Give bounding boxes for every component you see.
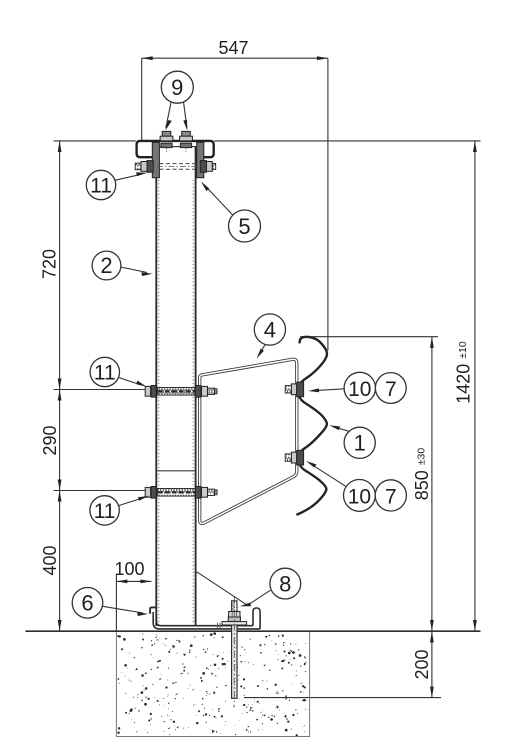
svg-text:2: 2	[100, 253, 112, 278]
w-beam bolt upper (7/10)	[285, 382, 303, 397]
callout 6	[72, 588, 103, 619]
callout 8	[270, 568, 301, 599]
leader to callouts 10/7 lower	[311, 464, 347, 487]
leader to callout 4	[259, 345, 265, 355]
svg-text:100: 100	[114, 559, 144, 579]
svg-text:11: 11	[90, 175, 112, 198]
leader to callout 11 top	[115, 174, 141, 180]
svg-text:4: 4	[264, 317, 276, 342]
cap through-bolt (11 top)	[135, 161, 216, 173]
svg-text:400: 400	[40, 545, 60, 575]
top cap plate (5)	[137, 141, 214, 157]
svg-text:290: 290	[40, 425, 60, 455]
ground line	[26, 630, 481, 632]
leader to callouts 10/7 upper	[313, 389, 344, 391]
left dimension chain 720 / 290 / 400	[54, 141, 148, 631]
leader to callout 11 bottom	[119, 498, 144, 506]
callout 11 top	[86, 170, 115, 199]
callout 10 upper	[344, 372, 375, 403]
leader to callout 5	[206, 187, 233, 216]
spacer bracket (4) double-line outline	[200, 359, 297, 523]
svg-text:11: 11	[94, 362, 116, 385]
svg-text:7: 7	[385, 378, 397, 401]
svg-text:9: 9	[171, 75, 183, 100]
leader to callout 8 with branch to post edge	[197, 572, 248, 606]
svg-text:10: 10	[348, 378, 371, 401]
dimension 547 (top)	[142, 58, 328, 350]
svg-text:8: 8	[279, 572, 291, 597]
svg-text:547: 547	[218, 38, 248, 58]
callout 7 lower	[375, 480, 406, 511]
post tube (2)	[156, 146, 195, 626]
leader to callout 11 mid	[118, 377, 141, 385]
dimension 850 +-30 (right)	[300, 337, 438, 631]
leader to callout 6	[102, 606, 143, 613]
callout 5	[229, 210, 261, 242]
W-beam rail profile (1)	[296, 337, 327, 515]
anchor bolt (8)	[222, 597, 247, 706]
base channel (6)	[150, 607, 260, 629]
svg-text:11: 11	[94, 500, 116, 523]
svg-text:7: 7	[385, 485, 397, 508]
cap clamp side plates	[152, 142, 159, 177]
callout 4	[254, 314, 285, 345]
callout 11 mid	[90, 357, 119, 386]
callout 9	[161, 71, 193, 103]
post clamp bolt upper (11 mid)	[145, 386, 217, 398]
svg-text:10: 10	[348, 485, 371, 508]
callout 11 bottom	[90, 496, 119, 525]
w-beam bolt lower (7/10)	[285, 450, 303, 465]
svg-text:200: 200	[412, 649, 432, 679]
dimension 200 (bottom right)	[244, 631, 441, 698]
dimension 100 (bottom left)	[116, 575, 151, 631]
concrete foundation	[116, 632, 309, 737]
svg-text:6: 6	[81, 591, 93, 616]
svg-text:720: 720	[39, 249, 59, 279]
top cap bolts (9)	[160, 131, 192, 147]
post clamp bolt lower (11 bottom)	[145, 487, 217, 499]
svg-text:5: 5	[238, 214, 250, 239]
leader to callout 2	[120, 267, 147, 273]
leader to callout 1	[334, 427, 350, 432]
dimension 1420 +-10 (far right)	[214, 141, 480, 631]
leader to callout 9 (two arrows)	[166, 103, 187, 129]
callout 7 upper	[375, 373, 406, 404]
callout 2	[92, 251, 121, 280]
callout 1	[344, 427, 375, 458]
callout 10 lower	[344, 480, 376, 512]
svg-text:1: 1	[354, 431, 366, 456]
